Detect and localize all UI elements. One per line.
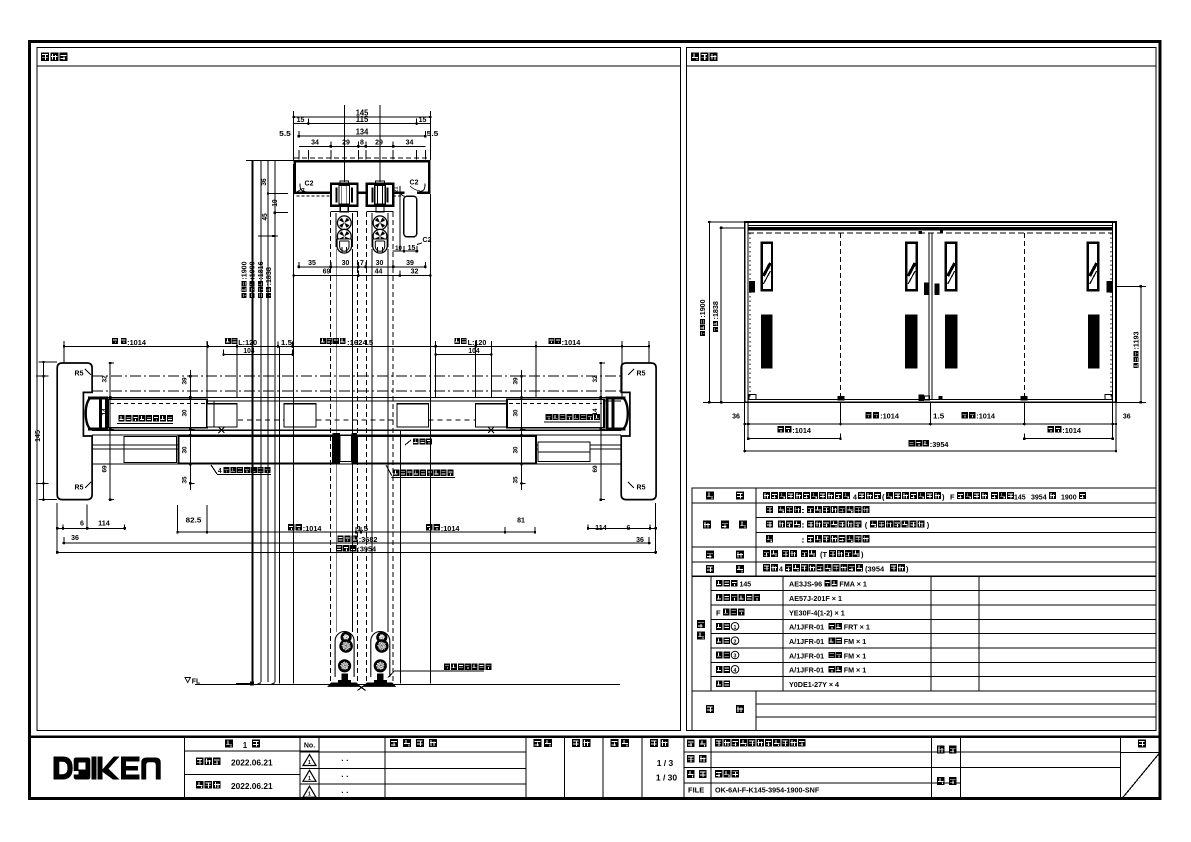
svg-text:30: 30 (342, 258, 350, 267)
svg-text:36: 36 (1123, 411, 1131, 420)
svg-text:19: 19 (272, 199, 279, 206)
left jamb door pocket cap (86, 397, 108, 431)
plan extension verticals (64, 341, 649, 397)
long section lines down to floor (280, 164, 431, 684)
revision dots rows (341, 756, 349, 797)
top detail dimension row 5.5 134 5.5 (279, 128, 438, 139)
svg-text:F: F (716, 608, 721, 617)
svg-text:F: F (950, 493, 955, 502)
svg-text:32: 32 (411, 267, 419, 276)
svg-text:A/1JFR-01: A/1JFR-01 (789, 637, 824, 646)
right jamb door pocket cap (605, 397, 627, 431)
front track door 1 (left) (108, 399, 237, 428)
svg-text::1014: :1014 (880, 412, 899, 421)
svg-text:104: 104 (468, 346, 479, 355)
svg-text:No.: No. (304, 743, 315, 750)
svg-text:1 / 30: 1 / 30 (656, 773, 678, 783)
front view left dim 枠外高1900 (700, 221, 745, 404)
svg-text:OK-6AI-F-K145-3954-1900-SNF: OK-6AI-F-K145-3954-1900-SNF (715, 786, 820, 795)
svg-text::1900: :1900 (242, 261, 249, 279)
rail radius label C2 left (294, 181, 314, 195)
svg-text:R5: R5 (637, 485, 646, 492)
svg-text::1014: :1014 (1062, 426, 1081, 435)
title block frame (28, 737, 1161, 799)
title FILE row (688, 786, 820, 795)
svg-text:44: 44 (375, 267, 384, 276)
svg-text:AE57J-201F × 1: AE57J-201F × 1 (789, 594, 842, 603)
door edge dashed lines down to floor (331, 212, 394, 683)
door 1 window (762, 243, 772, 291)
plan label 閉戸先角Yキャップ (underlined) (544, 414, 600, 422)
plan left dim 145 vertical (33, 361, 57, 501)
plan bottom dim 82.5 (176, 505, 208, 534)
svg-text::1624.5: :1624.5 (347, 338, 373, 347)
table 仕上げ row3 枠 オレフィンシート (766, 535, 869, 544)
right frame jamb (plan) (621, 363, 656, 500)
title 頁 cell with diagonal (1123, 739, 1160, 798)
svg-text:A/1JFR-01: A/1JFR-01 (789, 623, 824, 632)
svg-text:FILE: FILE (688, 786, 704, 795)
title 第1版 cell (225, 740, 260, 751)
svg-text:FRT × 1: FRT × 1 (844, 623, 870, 632)
svg-text:4: 4 (218, 468, 222, 475)
svg-text:30: 30 (513, 446, 520, 453)
left panel border (section view) (37, 48, 681, 731)
back track band lines (92, 435, 621, 464)
plan top dim row (door widths) (63, 338, 650, 348)
FL marker (185, 678, 201, 686)
top rail channel profile (294, 158, 431, 196)
svg-text:114: 114 (98, 519, 110, 528)
door 4 window (1088, 243, 1098, 291)
svg-text:21: 21 (394, 187, 400, 193)
svg-text:34: 34 (311, 138, 320, 147)
door top section right (366, 212, 393, 253)
extension lines above top rail (299, 150, 425, 160)
door 1 handle (761, 315, 772, 369)
plan bottom dim 36 labels (71, 533, 644, 544)
title 改訂履歴 header (390, 739, 437, 747)
svg-text::: : (801, 535, 805, 544)
svg-text:2022.06.21: 2022.06.21 (231, 759, 273, 768)
door stopper bar (394, 186, 417, 251)
front view bottom dim row2 (747, 426, 1114, 440)
svg-text::1838: :1838 (713, 301, 720, 319)
svg-text:34: 34 (406, 138, 415, 147)
svg-text:· ·: · · (341, 756, 349, 765)
svg-text::1014: :1014 (441, 524, 460, 533)
spec table grid (692, 488, 1156, 731)
title 縮尺 header and scales (650, 739, 677, 783)
table 品番 row 5 (716, 637, 866, 646)
table row label 仕上げ (703, 521, 747, 529)
svg-text:32: 32 (102, 375, 109, 382)
door 3 window (946, 243, 956, 291)
svg-text:1.5: 1.5 (281, 338, 292, 347)
plan vertical dims right stack (32 14 69) (592, 362, 605, 501)
height sub-dim ticks 36 45 19 (258, 178, 288, 237)
svg-text:35: 35 (182, 476, 189, 483)
flat rail label and leader (388, 664, 491, 678)
front view right dim 1193 (1116, 285, 1146, 403)
svg-text:Y0DE1-27Y × 4: Y0DE1-27Y × 4 (789, 680, 839, 689)
title 件名 label (937, 746, 957, 754)
svg-text:1: 1 (734, 625, 737, 631)
plan vertical dims col right (39 30 30 35) (513, 370, 526, 490)
svg-text::3954: :3954 (930, 440, 949, 449)
floor line FL (195, 684, 620, 686)
svg-text:81: 81 (517, 515, 525, 524)
plan sub dims 104 (222, 346, 492, 356)
title 制定日 row (196, 758, 273, 768)
table 仕上げ row1 パネル オレフィンシート (766, 506, 869, 515)
svg-text:69: 69 (323, 267, 331, 276)
svg-text::1816: :1816 (258, 261, 265, 279)
floor guide assembly right (363, 632, 397, 687)
plan bottom dim 114 6 right (587, 523, 657, 532)
edge pulls (749, 281, 1112, 295)
DAIKEN logo (53, 757, 160, 780)
svg-text:FL: FL (192, 679, 201, 686)
front view frame (745, 222, 1116, 402)
plan label 引戸先角Yキャップ (underlined) (117, 415, 173, 423)
door 3 handle (945, 315, 958, 369)
bottom guides (749, 395, 1112, 401)
vertical texts 枠外高1900 枠内高1900 開口高1816 扉高1838 (241, 261, 273, 298)
svg-text:145: 145 (33, 430, 42, 442)
plan note 4枚建緩衝措置 left (underlined) (211, 465, 271, 475)
svg-text:39: 39 (513, 377, 520, 384)
title 品番 label (687, 755, 707, 763)
svg-text:R5: R5 (75, 485, 84, 492)
svg-text:A/1JFR-01: A/1JFR-01 (789, 651, 824, 660)
svg-text:FMA × 1: FMA × 1 (839, 580, 867, 589)
svg-text:· ·: · · (341, 772, 349, 781)
hanger roller assembly right (367, 181, 393, 212)
title block row lines (185, 751, 1160, 784)
svg-text:YE30F-4(1-2) × 1: YE30F-4(1-2) × 1 (789, 608, 845, 617)
svg-text:C2: C2 (410, 180, 419, 187)
svg-text:36: 36 (732, 411, 740, 420)
svg-text::1014: :1014 (792, 426, 811, 435)
table row label 適用 (706, 565, 744, 573)
top detail dimension 145 (293, 109, 432, 161)
table 品番 row 7 (716, 666, 866, 675)
svg-text:32: 32 (592, 375, 599, 382)
svg-text:30: 30 (513, 409, 520, 416)
door top section left (dashed outline with hanger plate) (331, 212, 358, 253)
table row label 把手 (706, 551, 744, 559)
dim line end arrows at floor (236, 682, 275, 686)
top detail dimension row 15 115 15 (294, 115, 431, 125)
svg-text:114: 114 (595, 523, 607, 532)
floor guide assembly left (327, 632, 361, 687)
rail radius label C2 right (410, 180, 420, 192)
svg-text::1900: :1900 (700, 299, 707, 317)
front track band lines (92, 397, 621, 430)
table 品番 row 2 (716, 594, 842, 603)
plan bottom dim 内法幅3682 (63, 535, 651, 545)
table 品番 row 6 (716, 651, 866, 660)
svg-text:29: 29 (375, 138, 383, 147)
svg-text:3: 3 (734, 654, 737, 660)
table value 適用 フラットレール (763, 564, 909, 573)
svg-text:(T: (T (820, 550, 827, 559)
door 2 handle (905, 315, 918, 369)
plan bottom dim 6 114 left (56, 505, 126, 530)
svg-text:(3954: (3954 (865, 564, 885, 573)
table value 把手 引手角型堀込(Tシルバー) (763, 550, 864, 559)
table row label 要式 (706, 492, 744, 500)
svg-text:30: 30 (182, 446, 189, 453)
door stile dotted lines (750, 233, 1111, 399)
top detail dimension row 34 29 8 29 34 (299, 138, 425, 148)
svg-text:1.5: 1.5 (933, 412, 944, 421)
svg-text:35: 35 (513, 476, 520, 483)
left panel title 断面図 (41, 53, 68, 61)
svg-text::: : (801, 506, 805, 515)
front view door dividers (841, 233, 1025, 399)
front view left dim 扉高1838 (713, 227, 745, 404)
svg-text:15: 15 (419, 115, 427, 124)
svg-text:39: 39 (406, 258, 414, 267)
table 品番 row 4 (716, 623, 870, 632)
vertical dim stack lines (frame heights) (246, 161, 294, 684)
door 4 handle (1088, 315, 1099, 369)
door 2 window (906, 243, 916, 291)
svg-text:29: 29 (342, 138, 350, 147)
table 品番 vertical label (697, 620, 705, 640)
svg-text:30: 30 (376, 258, 384, 267)
plan bottom dim 81 (504, 515, 536, 533)
revision triangles (303, 755, 316, 798)
floor center X mark (358, 685, 366, 691)
plan centerlines (dash-dot) (92, 376, 621, 391)
svg-text::1193: :1193 (1134, 331, 1141, 349)
table value 要式 (series description) (763, 492, 1086, 502)
right panel border (front view) (686, 48, 1156, 731)
title 改訂日 row (196, 781, 273, 791)
title 担当 label (937, 777, 957, 785)
title 名称 label and value (687, 739, 805, 747)
svg-text:A/1JFR-01: A/1JFR-01 (789, 666, 824, 675)
table 品番 row 8 (716, 680, 839, 689)
back track door 2 (179, 436, 333, 463)
front track hanger rects (238, 404, 475, 427)
svg-text::1014: :1014 (976, 412, 995, 421)
title No column header (304, 743, 315, 750)
svg-text:5.5: 5.5 (279, 129, 291, 138)
svg-text:· ·: · · (341, 788, 349, 797)
svg-text:1: 1 (308, 792, 311, 798)
svg-text:69: 69 (102, 465, 109, 472)
back track door cap right (538, 442, 590, 462)
svg-text:36: 36 (71, 533, 79, 542)
table row label 備考 (706, 705, 744, 713)
top detail bottom dims 35 30 7 30 39 (298, 258, 427, 269)
svg-text:1: 1 (308, 760, 311, 766)
svg-text:2: 2 (734, 639, 737, 645)
roller centerlines (344, 105, 380, 182)
back track door 3 (357, 436, 536, 463)
svg-text:7: 7 (360, 258, 364, 267)
right panel title 正面図 (691, 53, 718, 61)
svg-text:15: 15 (408, 243, 416, 252)
svg-text:30: 30 (182, 409, 189, 416)
svg-text:3954: 3954 (1031, 493, 1047, 502)
svg-text:15: 15 (297, 115, 305, 124)
svg-text:82.5: 82.5 (186, 515, 202, 524)
svg-text::3682: :3682 (359, 535, 378, 544)
svg-text:C2: C2 (305, 181, 314, 188)
svg-text:6: 6 (627, 523, 631, 532)
front track door 4 (right) (476, 399, 605, 428)
center meeting stiles (333, 433, 357, 464)
table 品番 row 3 (716, 608, 845, 617)
back track door cap left (124, 437, 177, 463)
svg-text:R5: R5 (637, 371, 646, 378)
plan bottom dim 枠外幅3954 (56, 503, 657, 554)
svg-text:145: 145 (740, 580, 752, 589)
svg-text:36: 36 (261, 178, 268, 185)
svg-text:145: 145 (1014, 493, 1026, 502)
title 承認 確認 作成 headers (534, 739, 629, 747)
plan note 戸先錠緩衝措置手元 right (underlined) (386, 465, 455, 477)
svg-text::1014: :1014 (127, 338, 146, 347)
svg-text:8: 8 (360, 138, 364, 147)
svg-text:6: 6 (80, 519, 84, 528)
door stile solid lines down to floor guides (336, 249, 388, 632)
svg-text:1 / 3: 1 / 3 (657, 758, 674, 768)
svg-text:134: 134 (356, 128, 369, 137)
table 仕上げ row2 框表部 スチレン系樹脂 (766, 520, 930, 529)
svg-text:FM × 1: FM × 1 (844, 637, 867, 646)
front view bottom dim row1 36 1014 1.5 1014 36 (732, 411, 1131, 425)
plan vertical dims left stack (32 14 69) (102, 362, 115, 501)
svg-text:FM × 1: FM × 1 (844, 651, 867, 660)
svg-text:AE3JS-96: AE3JS-96 (789, 580, 822, 589)
stopper label C2 (417, 237, 432, 245)
top detail bottom dims 69 44 32 (293, 267, 432, 278)
svg-text:1: 1 (243, 741, 248, 750)
left frame jamb (plan) (57, 363, 92, 500)
svg-text::: : (801, 521, 805, 530)
svg-text:2022.06.21: 2022.06.21 (231, 782, 273, 791)
svg-text:5.5: 5.5 (427, 129, 439, 138)
stopper dimension 10 15 (393, 243, 419, 253)
svg-text:1: 1 (308, 776, 311, 782)
svg-text::1014: :1014 (562, 338, 581, 347)
svg-text:115: 115 (356, 115, 369, 124)
svg-text:69: 69 (592, 465, 599, 472)
x marks on track partition line (218, 427, 494, 433)
svg-text:35: 35 (308, 258, 316, 267)
title 図名 label and 三面図 (687, 770, 739, 778)
svg-text::1014: :1014 (303, 524, 322, 533)
top guide dots (919, 231, 943, 234)
svg-text:1900: 1900 (1061, 493, 1077, 502)
svg-text:FM × 1: FM × 1 (844, 666, 867, 675)
svg-text::1838: :1838 (266, 267, 273, 285)
plan note 戸当り leader (405, 438, 432, 445)
table 品番 row 1 (716, 580, 867, 589)
front view bottom dim row3 3954 (743, 402, 1117, 452)
plan bottom dim row door widths (207, 524, 535, 534)
svg-text:R5: R5 (75, 371, 84, 378)
svg-text:14: 14 (102, 408, 109, 415)
hanger roller assembly left (331, 181, 357, 212)
svg-text:14: 14 (592, 408, 599, 415)
svg-text:39: 39 (182, 377, 189, 384)
plan vertical dims col 39 30 30 35 (left) (182, 370, 195, 490)
